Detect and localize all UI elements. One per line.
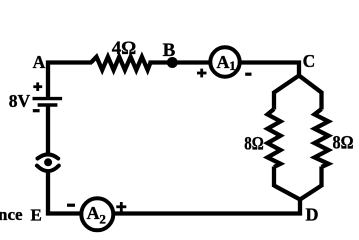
svg-text:D: D <box>306 205 319 225</box>
svg-text:E: E <box>31 205 42 224</box>
svg-text:A: A <box>33 52 46 72</box>
svg-text:2: 2 <box>99 212 106 227</box>
svg-text:B: B <box>163 40 176 61</box>
svg-text:8Ω: 8Ω <box>244 134 264 155</box>
svg-text:C: C <box>303 51 316 71</box>
svg-text:8Ω: 8Ω <box>333 133 354 154</box>
svg-text:A: A <box>87 203 100 223</box>
svg-text:4Ω: 4Ω <box>112 38 137 59</box>
svg-text:nce: nce <box>0 205 23 224</box>
svg-text:8V: 8V <box>9 91 31 111</box>
svg-text:A: A <box>217 52 230 72</box>
svg-text:1: 1 <box>229 58 236 73</box>
